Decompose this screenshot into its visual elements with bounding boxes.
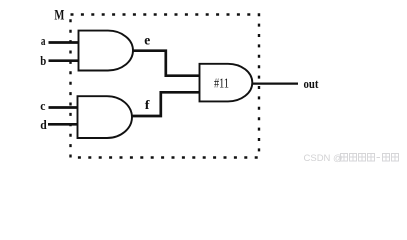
wire d bbox=[48, 123, 78, 126]
svg-text:c: c bbox=[40, 99, 46, 113]
svg-text:f: f bbox=[145, 97, 151, 112]
svg-text:e: e bbox=[144, 32, 150, 47]
AND gate G2 (inputs c,d) bbox=[78, 96, 133, 138]
svg-text:#11: #11 bbox=[214, 76, 229, 91]
wire e (G1 output to U1 input) bbox=[133, 51, 200, 76]
svg-text:CSDN @: CSDN @ bbox=[304, 153, 343, 164]
wire a bbox=[49, 41, 79, 44]
svg-text:d: d bbox=[40, 118, 47, 132]
wire b bbox=[49, 59, 79, 62]
wire f (G2 output to U1 input) bbox=[132, 92, 200, 116]
AND gate U1 (#11) bbox=[200, 64, 253, 102]
svg-text:out: out bbox=[304, 76, 320, 91]
AND gate G1 (inputs a,b) bbox=[79, 31, 133, 71]
svg-text:M: M bbox=[54, 7, 64, 23]
module boundary M (dashed box) bbox=[71, 15, 260, 158]
svg-text:a: a bbox=[41, 34, 46, 48]
svg-text:b: b bbox=[40, 54, 46, 68]
wire c bbox=[49, 106, 78, 109]
wire out bbox=[252, 82, 298, 84]
